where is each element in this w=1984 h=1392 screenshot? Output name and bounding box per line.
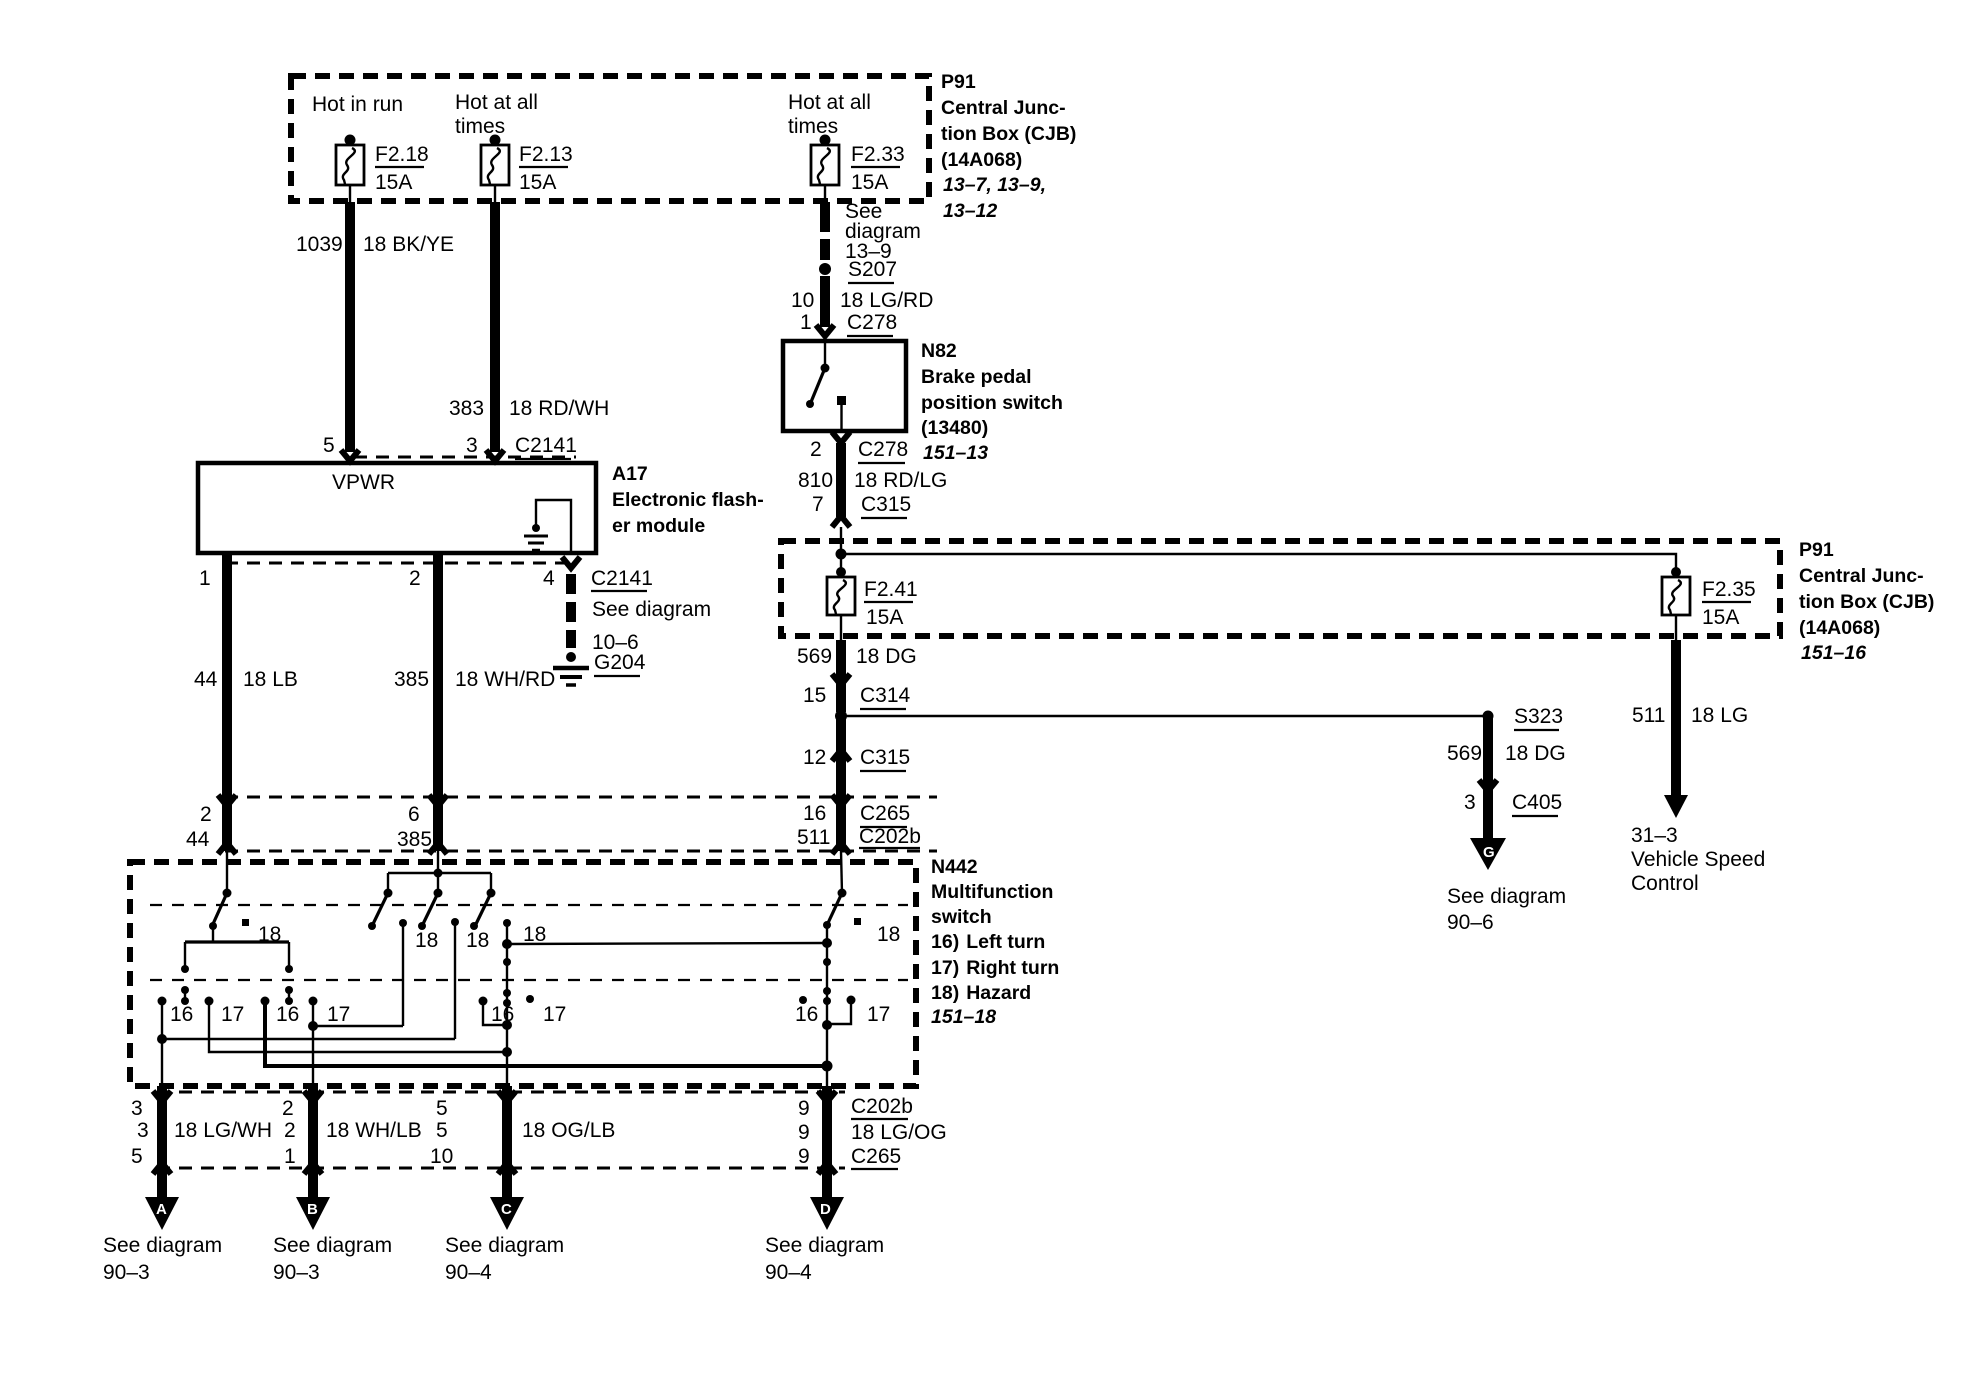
svg-text:C2141: C2141 (591, 567, 653, 590)
svg-text:2: 2 (810, 438, 822, 461)
svg-text:P91: P91 (1799, 539, 1834, 561)
fuse F2.41 15A (827, 554, 918, 640)
svg-text:B: B (307, 1201, 318, 1218)
svg-text:4: 4 (543, 567, 555, 590)
turn signal switch (centre, three poles) (368, 851, 496, 930)
svg-text:S323: S323 (1514, 705, 1563, 728)
svg-text:See diagram: See diagram (1447, 885, 1566, 908)
off-page arrow D (see diagram 90-4) (765, 1197, 884, 1284)
svg-text:N442: N442 (931, 856, 978, 878)
svg-text:13–7, 13–9,: 13–7, 13–9, (943, 174, 1046, 196)
svg-text:2: 2 (282, 1097, 294, 1120)
wire output C 18 OG/LB (498, 1086, 516, 1198)
svg-text:D: D (820, 1201, 831, 1218)
svg-text:switch: switch (931, 906, 992, 928)
svg-text:tion Box (CJB): tion Box (CJB) (1799, 591, 1934, 613)
svg-text:10: 10 (430, 1145, 453, 1168)
pin 16 (second) (261, 997, 828, 1067)
svg-text:15A: 15A (866, 606, 903, 629)
svg-text:2: 2 (200, 803, 212, 826)
svg-text:18: 18 (877, 923, 900, 946)
Central Junction Box P91 (right) dashed enclosure (781, 541, 1780, 636)
svg-text:er module: er module (612, 515, 705, 537)
svg-text:C265: C265 (860, 802, 910, 825)
svg-text:44: 44 (194, 668, 218, 691)
svg-text:1039: 1039 (296, 233, 343, 256)
svg-text:VPWR: VPWR (332, 471, 395, 494)
svg-text:tion Box (CJB): tion Box (CJB) (941, 123, 1076, 145)
svg-text:569: 569 (797, 645, 832, 668)
svg-text:C314: C314 (860, 684, 911, 707)
svg-text:2: 2 (284, 1119, 296, 1142)
svg-text:16: 16 (276, 1003, 299, 1026)
A17 label block (612, 463, 764, 537)
svg-text:Hot at all: Hot at all (788, 91, 871, 114)
wire A17 pin 4 to ground G204 (562, 557, 580, 648)
splice S323 (1483, 705, 1564, 730)
svg-text:C405: C405 (1512, 791, 1562, 814)
svg-text:18: 18 (415, 929, 438, 952)
svg-text:(14A068): (14A068) (941, 149, 1022, 171)
svg-text:9: 9 (798, 1145, 810, 1168)
svg-text:1: 1 (199, 567, 211, 590)
wire 569 18 DG (S323 drop to C405 pin 3, ground G) (1447, 716, 1566, 838)
svg-text:18)Hazard: 18)Hazard (931, 982, 1031, 1004)
svg-text:3: 3 (137, 1119, 149, 1142)
svg-text:90–3: 90–3 (103, 1261, 150, 1284)
svg-text:18 LG/OG: 18 LG/OG (851, 1121, 947, 1144)
svg-text:6: 6 (408, 803, 420, 826)
svg-text:3: 3 (1464, 791, 1476, 814)
pin 17 (right, bracket to post D) (827, 996, 890, 1027)
svg-text:90–6: 90–6 (1447, 911, 1494, 934)
svg-text:17: 17 (327, 1003, 350, 1026)
wire (internal CJB bus to F2.35) (841, 554, 1676, 570)
svg-text:Central Junc-: Central Junc- (1799, 565, 1924, 587)
P91 CJB label block (right) (1799, 539, 1934, 664)
svg-text:(14A068): (14A068) (1799, 617, 1880, 639)
splice node to S323 (835, 710, 1488, 722)
svg-text:18 WH/LB: 18 WH/LB (326, 1119, 422, 1142)
svg-text:17: 17 (221, 1003, 244, 1026)
svg-text:5: 5 (436, 1119, 448, 1142)
svg-text:2: 2 (409, 567, 421, 590)
wire 810 18 RD/LG (N82 pin 2 C278 to C315 pin 7) (798, 432, 947, 553)
svg-text:A: A (156, 1201, 167, 1218)
svg-text:16: 16 (803, 802, 826, 825)
svg-text:times: times (455, 115, 505, 138)
fuse F2.13 15A (481, 135, 573, 203)
svg-text:5: 5 (323, 434, 335, 457)
wire 385 18 WH/RD (A17 pin 2) (394, 553, 555, 854)
svg-text:18: 18 (523, 923, 546, 946)
svg-text:18 BK/YE: 18 BK/YE (363, 233, 454, 256)
svg-text:18 RD/WH: 18 RD/WH (509, 397, 609, 420)
off-page arrow G (ground, see diagram 90-6) (1447, 838, 1566, 934)
svg-text:18: 18 (258, 923, 281, 946)
svg-text:Central Junc-: Central Junc- (941, 97, 1066, 119)
svg-text:16: 16 (795, 1003, 818, 1026)
N82 label block (921, 340, 1063, 464)
svg-text:13–12: 13–12 (943, 200, 997, 222)
svg-text:C202b: C202b (851, 1095, 913, 1118)
svg-text:17: 17 (543, 1003, 566, 1026)
svg-text:C278: C278 (847, 311, 897, 334)
svg-text:A17: A17 (612, 463, 648, 485)
svg-text:1: 1 (284, 1145, 296, 1168)
svg-text:Hot in run: Hot in run (312, 93, 403, 116)
svg-text:F2.18: F2.18 (375, 143, 429, 166)
svg-text:90–3: 90–3 (273, 1261, 320, 1284)
svg-text:90–4: 90–4 (445, 1261, 492, 1284)
svg-text:P91: P91 (941, 71, 976, 93)
off-page arrow B (see diagram 90-3) (273, 1197, 392, 1284)
connector band C202b / C265 (bottom of multifunction switch) (131, 1092, 947, 1169)
svg-text:C202b: C202b (859, 825, 921, 848)
fuse F2.33 15A (811, 135, 905, 203)
svg-text:F2.33: F2.33 (851, 143, 905, 166)
A17 internal ground (524, 500, 571, 553)
fuse F2.35 15A (1662, 567, 1756, 640)
svg-text:See diagram: See diagram (765, 1234, 884, 1257)
N442 multifunction switch dashed enclosure (130, 862, 916, 1086)
wire S207 branch 18 LG/RD (below F2.33) (820, 200, 921, 263)
svg-text:383: 383 (449, 397, 484, 420)
svg-text:810: 810 (798, 469, 833, 492)
svg-text:C265: C265 (851, 1145, 901, 1168)
svg-text:385: 385 (394, 668, 429, 691)
svg-text:18 LB: 18 LB (243, 668, 298, 691)
svg-text:569: 569 (1447, 742, 1482, 765)
svg-text:F2.13: F2.13 (519, 143, 573, 166)
svg-text:C: C (501, 1201, 512, 1218)
svg-text:18 LG/RD: 18 LG/RD (840, 289, 933, 312)
svg-text:151–13: 151–13 (923, 442, 988, 464)
N442 label block (931, 856, 1059, 1028)
pin 17 (left) (205, 997, 508, 1053)
svg-text:16)Left turn: 16)Left turn (931, 931, 1045, 953)
svg-text:17: 17 (867, 1003, 890, 1026)
svg-text:90–4: 90–4 (765, 1261, 812, 1284)
svg-text:31–3: 31–3 (1631, 824, 1678, 847)
svg-text:7: 7 (812, 493, 824, 516)
svg-text:18 LG: 18 LG (1691, 704, 1748, 727)
off-page arrow C (see diagram 90-4) (445, 1197, 564, 1284)
wire post C to hazard switch (right pole) (507, 943, 827, 944)
svg-text:G204: G204 (594, 651, 646, 674)
wire 383 18 RD/WH (449, 202, 609, 461)
svg-text:511: 511 (797, 826, 830, 849)
contact post / output C branch (18) (502, 919, 546, 1086)
svg-text:18 DG: 18 DG (1505, 742, 1566, 765)
wire 569 18 DG (F2.41 to C314 pin 15) (797, 640, 917, 712)
connector band C265 / C202b (top of multifunction switch) (186, 797, 937, 851)
svg-text:G: G (1483, 844, 1495, 861)
hazard switch (left pole) (181, 851, 293, 1005)
A17 electronic flasher module box (198, 463, 596, 553)
P91 CJB label block (top right) (941, 71, 1076, 222)
ground G204 (553, 651, 646, 685)
svg-text:18 RD/LG: 18 RD/LG (854, 469, 947, 492)
svg-text:position switch: position switch (921, 392, 1063, 414)
svg-text:(13480): (13480) (921, 417, 988, 439)
svg-text:15A: 15A (1702, 606, 1739, 629)
N82 brake pedal position switch box (783, 341, 906, 431)
wire 511 18 LG (F2.35 to vehicle speed control) (1632, 640, 1748, 797)
svg-text:times: times (788, 115, 838, 138)
svg-text:C278: C278 (858, 438, 908, 461)
pin 16 (third, bracket to post C) (479, 997, 515, 1027)
contact post / output D branch (822, 925, 833, 1086)
svg-text:15A: 15A (851, 171, 888, 194)
svg-text:16: 16 (170, 1003, 193, 1026)
svg-text:Electronic flash-: Electronic flash- (612, 489, 764, 511)
connector C2141 pins 5 and 3 (top of flasher) (323, 434, 577, 459)
svg-text:15A: 15A (375, 171, 412, 194)
off-page arrow A (see diagram 90-3) (103, 1197, 222, 1284)
svg-text:511: 511 (1632, 704, 1665, 727)
svg-text:17)Right turn: 17)Right turn (931, 957, 1059, 979)
wire pin16/output A to centre post (162, 1038, 455, 1040)
svg-text:F2.35: F2.35 (1702, 578, 1756, 601)
svg-text:18 WH/RD: 18 WH/RD (455, 668, 555, 691)
svg-text:151–16: 151–16 (1801, 642, 1866, 664)
svg-text:See diagram: See diagram (445, 1234, 564, 1257)
svg-text:15A: 15A (519, 171, 556, 194)
wire output A 18 LG/WH (153, 1086, 171, 1198)
svg-text:5: 5 (436, 1097, 448, 1120)
svg-text:9: 9 (798, 1097, 810, 1120)
node: junction of brake wire and F2.41/F2.35 feed (836, 549, 847, 560)
svg-text:C315: C315 (860, 746, 910, 769)
svg-text:5: 5 (131, 1145, 143, 1168)
pin 17 (second) to output B (308, 997, 403, 1087)
svg-text:S207: S207 (848, 258, 897, 281)
svg-text:C2141: C2141 (515, 434, 577, 457)
svg-text:385: 385 (397, 828, 432, 851)
svg-text:See diagram: See diagram (273, 1234, 392, 1257)
pin 16 (right, open) (795, 996, 818, 1026)
svg-text:16: 16 (491, 1003, 514, 1026)
svg-text:18 DG: 18 DG (856, 645, 917, 668)
svg-text:3: 3 (466, 434, 478, 457)
svg-text:151–18: 151–18 (931, 1006, 996, 1028)
svg-text:F2.41: F2.41 (864, 578, 918, 601)
svg-text:See diagram: See diagram (103, 1234, 222, 1257)
splice S207 (819, 258, 897, 283)
wire 12 C315 (junction down to multifunction switch) (803, 716, 910, 854)
wire 18 LG/RD into N82 pin 1 C278 (791, 276, 933, 343)
svg-text:N82: N82 (921, 340, 957, 362)
svg-text:Multifunction: Multifunction (931, 881, 1053, 903)
wire output D 18 LG/OG (818, 1086, 836, 1198)
wire 1039 18 BK/YE (296, 202, 454, 461)
wire 44 18 LB (A17 pin 1) (194, 553, 298, 854)
svg-text:Vehicle Speed: Vehicle Speed (1631, 848, 1765, 871)
mechanical linkage dashed lines (150, 905, 908, 980)
pin 17 (third, open) (526, 995, 566, 1026)
contact post (18) centre (451, 918, 489, 1039)
svg-text:15: 15 (803, 684, 826, 707)
svg-text:See diagram: See diagram (592, 598, 711, 621)
svg-text:10: 10 (791, 289, 814, 312)
svg-text:1: 1 (800, 311, 812, 334)
svg-text:Control: Control (1631, 872, 1699, 895)
connector C2141 pins 1 2 4 (bottom of flasher) (199, 563, 711, 654)
contact post (18) left of centre (399, 919, 438, 1026)
svg-text:18: 18 (466, 929, 489, 952)
hazard switch (right pole) (823, 851, 900, 946)
svg-text:44: 44 (186, 828, 210, 851)
pin 16 (left) to output A (157, 997, 193, 1087)
svg-text:12: 12 (803, 746, 826, 769)
svg-text:9: 9 (798, 1121, 810, 1144)
fuse F2.18 15A (336, 135, 429, 203)
svg-text:Brake pedal: Brake pedal (921, 366, 1032, 388)
Central Junction Box P91 (top) dashed enclosure (291, 76, 929, 201)
svg-text:18 LG/WH: 18 LG/WH (174, 1119, 272, 1142)
svg-text:Hot at all: Hot at all (455, 91, 538, 114)
svg-text:C315: C315 (861, 493, 911, 516)
wire output B 18 WH/LB (304, 1086, 322, 1198)
svg-text:3: 3 (131, 1097, 143, 1120)
off-page arrow to 31-3 vehicle speed control (1631, 795, 1765, 895)
svg-text:18 OG/LB: 18 OG/LB (522, 1119, 615, 1142)
